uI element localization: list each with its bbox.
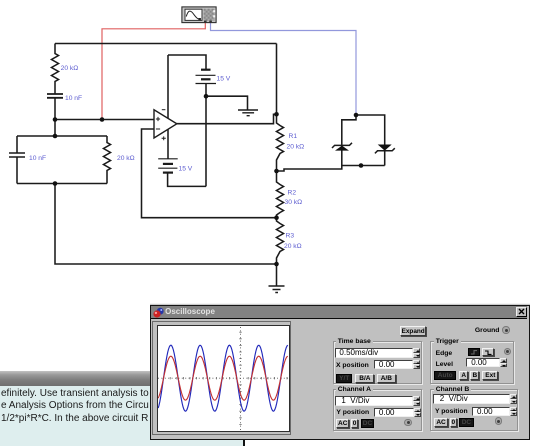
svg-text:R3: R3 bbox=[286, 233, 295, 240]
svg-text:30 kΩ: 30 kΩ bbox=[285, 199, 303, 206]
svg-text:10 nF: 10 nF bbox=[29, 155, 46, 162]
svg-text:15 V: 15 V bbox=[179, 166, 193, 173]
svg-text:R1: R1 bbox=[289, 133, 298, 140]
svg-text:20 kΩ: 20 kΩ bbox=[287, 144, 305, 151]
svg-text:20 kΩ: 20 kΩ bbox=[117, 155, 135, 162]
svg-text:20 kΩ: 20 kΩ bbox=[61, 65, 79, 72]
svg-text:20 kΩ: 20 kΩ bbox=[284, 243, 302, 250]
svg-text:10 nF: 10 nF bbox=[65, 95, 82, 102]
svg-text:R2: R2 bbox=[288, 190, 297, 197]
svg-text:15 V: 15 V bbox=[217, 76, 231, 83]
